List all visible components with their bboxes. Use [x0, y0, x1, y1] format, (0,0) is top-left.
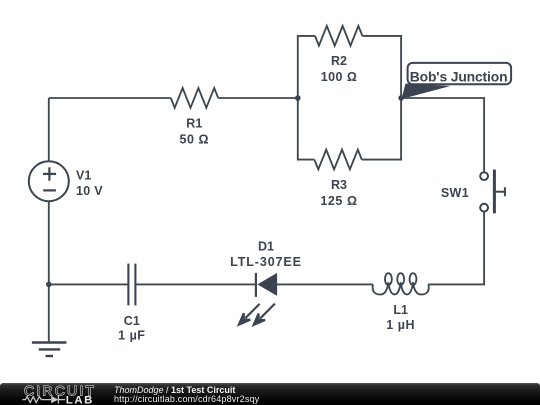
label V1 value: [76, 168, 103, 198]
svg-text:LTL-307EE: LTL-307EE: [230, 255, 302, 269]
wire: node A up to R2 branch: [298, 36, 315, 98]
switch SW1: [480, 170, 505, 214]
label SW1: [441, 186, 469, 200]
label R3 value: [320, 178, 357, 208]
svg-text:R3: R3: [331, 178, 347, 192]
wire: C1 to ground node: [49, 283, 129, 285]
svg-text:1 µF: 1 µF: [118, 329, 145, 343]
svg-text:100 Ω: 100 Ω: [321, 70, 358, 84]
wire: L1 to D1: [277, 283, 373, 285]
D1 LED arrows: [239, 304, 275, 325]
svg-text:L1: L1: [393, 303, 408, 317]
wire: ground node up to V1 bottom: [48, 201, 50, 284]
wire: top-left horizontal to R1: [49, 97, 171, 99]
wire: R1 to node A: [218, 97, 298, 99]
wire: node A down to R3 branch: [298, 98, 315, 160]
label L1 value: [386, 303, 415, 332]
wire: ground node down to ground: [48, 284, 50, 342]
svg-text:V1: V1: [76, 168, 91, 182]
svg-text:Bob's Junction: Bob's Junction: [410, 68, 508, 84]
label R1 value: [179, 116, 209, 146]
ground: [32, 343, 67, 357]
svg-text:1 µH: 1 µH: [386, 318, 415, 332]
inductor L1: [373, 273, 429, 294]
svg-text:SW1: SW1: [441, 186, 469, 200]
ground node junction dot: [46, 282, 52, 288]
wire: SW1 bottom to bottom row corner: [428, 212, 484, 284]
node A junction dot: [295, 95, 301, 101]
svg-text:50 Ω: 50 Ω: [179, 133, 209, 147]
CircuitLab logo: [0, 381, 100, 405]
wire: D1 to C1: [135, 283, 256, 285]
svg-text:C1: C1: [124, 314, 140, 328]
resistor R1: [171, 88, 218, 108]
resistor R3: [314, 150, 361, 170]
svg-text:D1: D1: [258, 239, 274, 253]
resistor R2: [315, 26, 362, 46]
label R2 value: [321, 54, 358, 84]
svg-text:125 Ω: 125 Ω: [320, 194, 357, 208]
wire: Bob's Junction node to SW1: [401, 98, 484, 171]
footer url text: [114, 395, 259, 404]
svg-text:10 V: 10 V: [76, 184, 103, 198]
wire: V1 top to main row corner: [48, 98, 50, 161]
label D1 value: [230, 239, 302, 269]
svg-text:R2: R2: [331, 54, 347, 68]
svg-text:R1: R1: [186, 116, 202, 130]
label C1 value: [118, 314, 145, 343]
wire: R2 to Bob's Junction node: [362, 36, 401, 98]
voltage source V1: [29, 161, 69, 201]
footer title text: [114, 386, 235, 395]
wire: R3 to Bob's Junction node: [362, 98, 401, 160]
diode D1 (LED): [256, 273, 277, 297]
annotation callout Bob's Junction: [402, 63, 512, 99]
footer bar: [0, 383, 540, 405]
svg-text:LAB: LAB: [66, 394, 94, 405]
capacitor C1: [128, 264, 135, 306]
node Bob's Junction dot: [398, 95, 404, 101]
